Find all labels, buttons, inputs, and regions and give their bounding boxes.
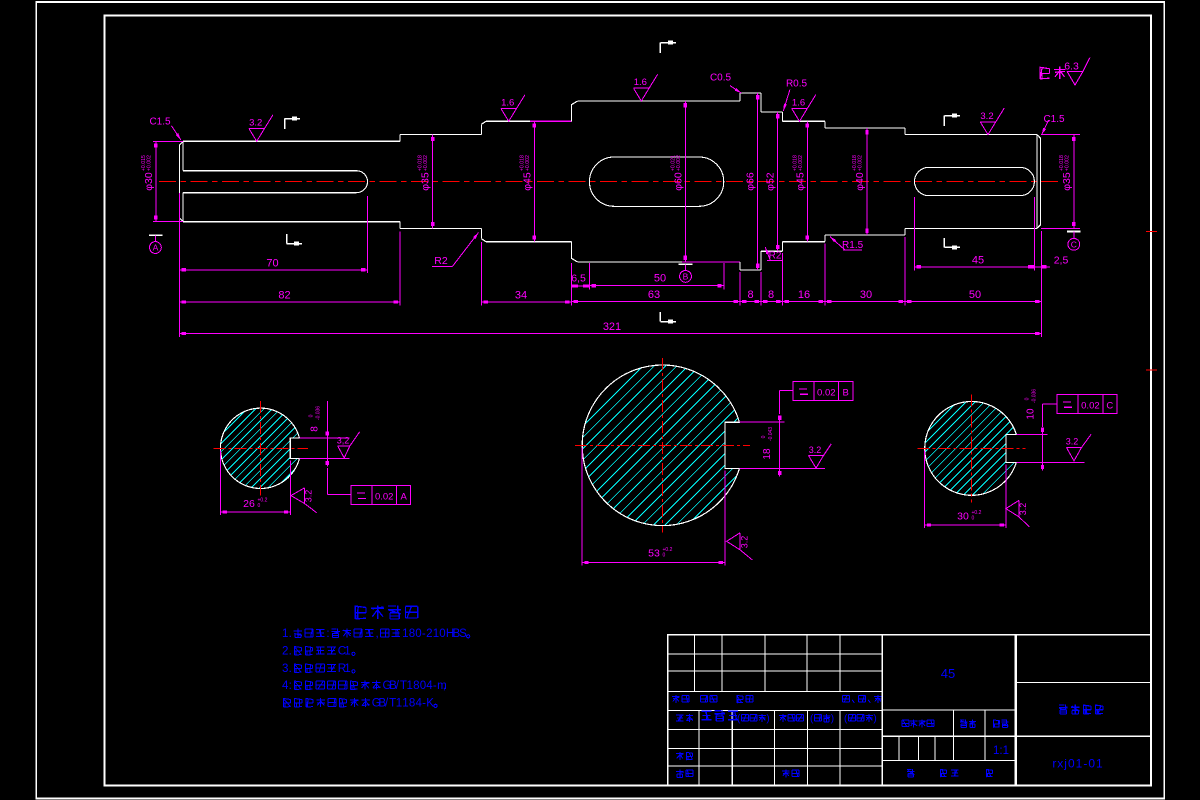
section A hatching [164,364,517,493]
svg-text::: : [326,628,329,640]
section C lower keyway ext to roughness [1016,461,1084,463]
svg-text:C0.5: C0.5 [710,73,732,84]
svg-text:rxj01-01: rxj01-01 [1052,757,1103,771]
svg-text:1: 1 [396,698,402,710]
svg-text:6.3: 6.3 [1064,61,1079,73]
datum A symbol [149,234,163,236]
svg-text:+0.002: +0.002 [423,155,429,171]
datum C symbol [1067,231,1081,233]
svg-text:C1.5: C1.5 [149,117,171,128]
technical requirements line 5 [284,698,291,707]
svg-text:3.2: 3.2 [809,445,822,455]
svg-text:C: C [1106,401,1113,412]
roughness 3.2 phi35 right [980,108,1004,135]
section C feature control frame [1057,394,1078,413]
dimension 63 [572,301,741,303]
svg-text:φ40: φ40 [854,172,866,191]
svg-text:0: 0 [663,553,666,559]
dimension phi35 right end [1041,134,1080,136]
svg-text:8: 8 [747,289,753,301]
svg-text:3,2: 3,2 [337,436,350,446]
dimension phi60 [684,101,686,262]
step phi45-phi60 with chamfer [571,105,573,122]
svg-text:φ60: φ60 [672,172,684,191]
svg-text:0: 0 [309,414,315,417]
step phi30-phi35 [399,135,401,142]
step phi52-phi45 [782,112,784,121]
svg-text:10: 10 [1026,408,1037,420]
section B lower keyway ext to roughness [739,467,825,469]
right end face with chamfer [1036,135,1038,229]
svg-text:50: 50 [654,273,666,285]
dimension 34 [482,301,572,303]
section B hatching [479,281,1135,530]
svg-text:+0.002: +0.002 [858,155,864,171]
phi52 section edges [761,111,783,113]
svg-text:53: 53 [648,548,660,560]
roughness 1.6 phi45 right [792,95,816,122]
dimension 70 keyway [179,269,367,271]
phi35 section edges [400,134,482,136]
main centerline [159,181,1059,183]
svg-text:30: 30 [860,289,872,301]
svg-text:φ45: φ45 [521,172,533,191]
svg-text:8: 8 [409,698,415,710]
svg-text:3: 3 [282,663,288,675]
svg-text:C: C [1071,240,1077,250]
dimension phi40 [866,128,868,235]
svg-text:3.2: 3.2 [1018,503,1028,516]
section B width dimension [739,421,784,423]
dimension 45 right keyway [915,266,1035,268]
section bracket right bottom [943,238,945,247]
phi66 collar [739,93,741,101]
section A roughness on 26 dim [291,488,317,513]
svg-text:0: 0 [972,516,975,522]
svg-text:0.02: 0.02 [1081,401,1100,412]
svg-text:16: 16 [798,289,810,301]
middle keyway slot phi60 [589,157,723,206]
svg-text:.: . [289,646,292,658]
svg-text:φ35: φ35 [1061,172,1073,191]
phi45 second section edges [783,120,826,122]
svg-text:R1.5: R1.5 [842,240,864,251]
svg-text:-0.043: -0.043 [768,427,774,441]
section B leader to frame [779,391,781,414]
svg-text:1.6: 1.6 [501,98,514,109]
svg-text:3.2: 3.2 [740,536,750,549]
phi45 section edges [486,120,530,122]
svg-text:26: 26 [243,498,255,510]
svg-text:1: 1 [433,628,439,640]
shaft profile outline [179,141,183,221]
svg-text:S: S [459,628,467,640]
dimension 50 middle keyway [590,285,724,287]
section bracket left bottom [286,234,288,243]
roughness 1.6 phi60 [634,74,658,101]
svg-text:): ) [831,713,834,724]
section bracket left top [284,119,286,129]
svg-text:φ52: φ52 [765,172,777,191]
roughness 3.2 phi30 [249,115,273,142]
svg-text:3.2: 3.2 [1066,437,1079,447]
svg-text:8: 8 [310,426,321,432]
dimension 321 overall [179,333,1041,335]
part name [1059,705,1068,715]
svg-text:0: 0 [439,628,445,640]
svg-text:2: 2 [282,646,288,658]
roughness 1.6 phi45 [501,95,525,122]
svg-text:-0.036: -0.036 [1032,389,1038,403]
section B feature control frame [793,381,814,400]
phi40 section edges [825,127,905,129]
dimension phi35 left [432,135,434,229]
extension lines below shaft [178,193,180,337]
svg-text:+0.002: +0.002 [798,155,804,171]
section A feature control frame [351,486,372,505]
svg-text:1: 1 [344,663,350,675]
section C bottom dimension [924,450,926,528]
section B bottom dimension [581,447,583,565]
section C hatching [860,351,1200,500]
stage mark labels [902,720,909,727]
section A bottom dimension [219,450,221,515]
dimension 6.5 [572,285,590,287]
svg-text:R0.5: R0.5 [786,78,808,89]
svg-text:45: 45 [972,255,984,267]
svg-text:321: 321 [603,321,621,333]
section B roughness on 53 dim [727,533,753,560]
svg-text:3.2: 3.2 [304,490,314,503]
dimension 16 [783,301,826,303]
svg-text:1: 1 [402,628,408,640]
surface roughness general note 6.3 [1040,67,1050,79]
designer signature [702,711,712,720]
section A width dimension [300,437,350,439]
svg-text:63: 63 [648,289,660,301]
section A centerlines [260,401,262,495]
svg-text:+0.002: +0.002 [525,155,531,171]
svg-text:3.2: 3.2 [249,118,262,129]
step phi45-phi40 [824,121,826,128]
svg-text:A: A [153,243,159,253]
svg-text:18: 18 [762,448,773,460]
svg-text:,: , [376,628,379,640]
svg-text:1.6: 1.6 [792,98,805,109]
svg-text:0: 0 [761,435,767,438]
section C roughness on 30 dim [1006,500,1030,527]
svg-text:B: B [843,387,849,398]
svg-text:1: 1 [344,646,350,658]
step phi35-phi45 with chamfer [481,124,483,134]
section A leader to frame [326,468,328,495]
svg-text:A: A [401,492,408,503]
svg-text:1:1: 1:1 [993,745,1009,757]
svg-text:1.6: 1.6 [634,77,647,88]
svg-text:.: . [289,628,292,640]
svg-text:0.02: 0.02 [817,387,836,398]
datum B symbol [679,263,693,265]
dimension 50 right [905,301,1042,303]
left keyway slot phi30 [183,171,368,193]
svg-text:2: 2 [426,628,432,640]
sheet count row [907,769,914,777]
svg-text:34: 34 [515,290,527,302]
section bracket middle bottom [659,312,661,321]
technical requirements title [355,605,366,619]
svg-text:φ35: φ35 [420,172,432,191]
dimension phi66 [757,93,759,270]
right keyway slot phi35 [915,167,1035,195]
dimension 2.5 [1034,266,1041,268]
svg-text:45: 45 [941,666,955,681]
section B centerlines [662,358,664,533]
section bracket middle top [659,43,661,53]
svg-text:0: 0 [420,680,426,692]
svg-text:8: 8 [409,628,415,640]
phi60 section edges [578,100,740,102]
red centerline marks on right frame [1146,231,1157,233]
svg-text:8: 8 [413,680,419,692]
svg-text:6,5: 6,5 [571,273,586,285]
svg-text:30: 30 [957,511,969,523]
svg-text:0: 0 [415,628,421,640]
svg-text:1: 1 [407,680,413,692]
svg-text:2,5: 2,5 [1054,255,1069,267]
svg-text::: : [289,680,292,692]
phi35 right section edges [905,134,1037,136]
svg-text:50: 50 [969,289,981,301]
step phi40-phi35 [904,128,906,135]
svg-text:0: 0 [1025,397,1031,400]
svg-text:+0.002: +0.002 [676,155,682,171]
dimension phi30 [153,140,183,142]
svg-text:): ) [766,713,769,724]
dimension 30 [825,301,905,303]
svg-text:+0.002: +0.002 [1064,155,1070,171]
svg-text:+0.002: +0.002 [146,155,152,171]
svg-text:K: K [426,698,434,710]
svg-text:φ30: φ30 [143,172,155,191]
dimension 82 [179,301,400,303]
svg-text:8: 8 [768,289,774,301]
dimension phi52 [777,112,779,251]
svg-text:B: B [683,272,689,282]
dimension phi45 left [533,121,535,241]
svg-text:3.2: 3.2 [980,111,993,122]
svg-text:1: 1 [402,698,408,710]
svg-text:0: 0 [258,503,261,509]
svg-text:0.02: 0.02 [375,492,394,503]
svg-text:R2: R2 [434,255,448,267]
dimension phi45 right [806,121,808,241]
dimension 8 collar [740,301,761,303]
svg-text:1: 1 [282,628,288,640]
svg-text:70: 70 [266,258,278,270]
title block labels left [672,695,679,703]
svg-text:82: 82 [278,290,290,302]
section bracket right top [943,116,945,126]
svg-text:-0.036: -0.036 [316,406,322,420]
section C centerlines [971,395,973,503]
svg-text:.: . [289,663,292,675]
section C width dimension [1016,433,1047,435]
title block grid [668,635,1151,785]
svg-text:): ) [873,713,876,724]
svg-text:,: , [443,680,446,692]
svg-text:φ66: φ66 [745,172,757,191]
svg-text:φ45: φ45 [794,172,806,191]
section C leader to frame [1042,404,1044,427]
dimension 8 phi52 [761,301,783,303]
